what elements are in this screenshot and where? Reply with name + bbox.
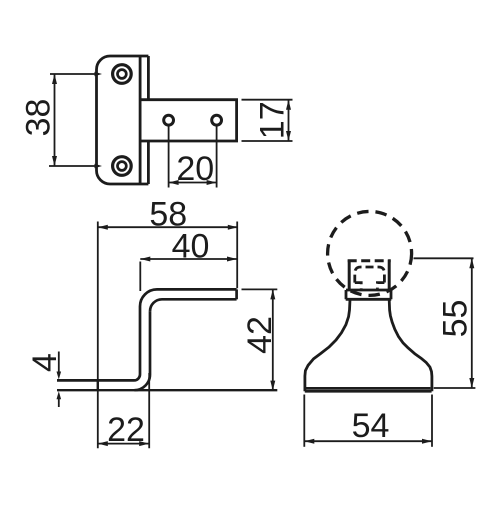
dim 55 dimension line bbox=[471, 258, 473, 388]
front view: collar bbox=[346, 290, 392, 299]
dim 55 bottom extension line bbox=[434, 387, 476, 389]
arrowhead 22 right bbox=[139, 441, 149, 446]
dim 54 right extension line bbox=[431, 395, 433, 447]
front view: clamp top dashed edge bbox=[348, 259, 391, 262]
svg-text:40: 40 bbox=[172, 228, 210, 266]
front view: bell left side bbox=[305, 300, 350, 392]
side view: outer surface bottom long line (also ext for 42/4) bbox=[57, 389, 277, 391]
dim 38 dimension line bbox=[54, 74, 56, 166]
dim 55 top extension / pipe leader bbox=[414, 257, 474, 259]
arrowhead 38 top leader tip bbox=[95, 72, 103, 76]
arrowhead 4 bottom bbox=[57, 391, 62, 399]
dim 42 dimension line bbox=[272, 289, 274, 390]
svg-text:4: 4 bbox=[26, 353, 64, 372]
dim 54 left extension line bbox=[303, 395, 305, 447]
front view: clamp right wall bbox=[388, 260, 391, 291]
front view: hidden channel right foot bbox=[377, 283, 384, 289]
top view: upper screw hole outer bbox=[113, 65, 132, 84]
svg-text:20: 20 bbox=[176, 150, 214, 188]
arrowhead 20 right bbox=[207, 180, 217, 185]
side view: inner surface (bottom bar top + web left + top bar top) bbox=[57, 289, 237, 380]
top view: fold line bbox=[139, 56, 142, 184]
arrowhead 58 right bbox=[228, 225, 238, 230]
dim 38 upper extension line bbox=[50, 73, 99, 75]
arrowhead 42 top bbox=[270, 289, 275, 299]
top view: arm hole left bbox=[164, 115, 174, 125]
top view: plate right edge lower segment bbox=[147, 141, 150, 184]
top view: upper screw hole inner bbox=[118, 70, 127, 79]
svg-text:42: 42 bbox=[241, 316, 279, 354]
svg-text:54: 54 bbox=[352, 407, 390, 445]
dim 4 lower arrow stem bbox=[58, 398, 60, 407]
dim 17 upper extension line bbox=[242, 99, 293, 101]
arrowhead 54 right bbox=[422, 439, 432, 444]
dim 54 dimension line bbox=[304, 440, 432, 442]
dim 58/22 shared left extension line bbox=[97, 222, 99, 449]
front view: flange bottom edge bbox=[305, 390, 432, 393]
front view: hidden channel left foot bbox=[355, 283, 361, 289]
arrowhead 40 right bbox=[227, 257, 237, 262]
dim 22 right extension line bbox=[148, 373, 150, 448]
side view: left end cap bbox=[97, 380, 99, 390]
front view: dashed pipe circle bbox=[328, 211, 412, 295]
arrowhead 54 left bbox=[304, 439, 314, 444]
arrowhead 17 top bbox=[286, 100, 291, 110]
dim 42 top extension line bbox=[242, 288, 278, 290]
side view: top bar bottom surface bbox=[162, 298, 237, 301]
svg-text:55: 55 bbox=[436, 300, 474, 338]
side view: web right surface bbox=[149, 311, 152, 374]
front view: hidden channel profile cap bbox=[355, 267, 385, 283]
top view: arm hole right bbox=[212, 115, 222, 125]
arrowhead 38 top bbox=[52, 74, 57, 84]
dim 20 right leader bbox=[216, 127, 218, 188]
side view: top bend inner bbox=[150, 299, 162, 311]
front view: bell right side bbox=[389, 300, 432, 392]
arrowhead 55 bottom bbox=[469, 378, 474, 388]
dim 22 dimension line bbox=[98, 443, 149, 445]
side view: outer bend bottom bbox=[134, 375, 150, 391]
dim 17 dimension line bbox=[288, 100, 290, 141]
dim 17 lower extension line bbox=[242, 140, 293, 142]
top view: plate right edge upper segment bbox=[147, 56, 150, 100]
arrowhead 4 top bbox=[57, 372, 62, 380]
dim 58/40 shared right extension line bbox=[236, 222, 238, 289]
dim 40 dimension line bbox=[140, 258, 237, 260]
dim 38 lower extension line bbox=[49, 165, 99, 167]
svg-text:22: 22 bbox=[107, 411, 145, 449]
dim 58 dimension line bbox=[98, 226, 238, 228]
arrowhead 17 bottom bbox=[286, 131, 291, 141]
arrowhead 20 left bbox=[169, 180, 179, 185]
top view: lower screw hole outer bbox=[113, 157, 132, 176]
arrowhead 38 bottom leader tip bbox=[95, 164, 103, 168]
arrowhead 38 bottom bbox=[52, 156, 57, 166]
dim 20 left leader bbox=[168, 127, 170, 188]
arrowhead 40 left bbox=[140, 257, 150, 262]
front view: clamp left wall bbox=[348, 260, 351, 291]
dim 4 upper arrow stem bbox=[58, 352, 60, 373]
arrowhead 42 bottom bbox=[270, 381, 275, 391]
top view: arm outline bbox=[140, 100, 237, 141]
top view: base plate outline bbox=[97, 56, 149, 184]
top view: lower screw hole inner bbox=[118, 162, 127, 171]
svg-text:38: 38 bbox=[20, 99, 58, 137]
arrowhead 58 left bbox=[98, 225, 108, 230]
front view: flange crease bbox=[306, 387, 430, 390]
arrowhead 55 top bbox=[469, 258, 474, 268]
svg-text:17: 17 bbox=[254, 101, 292, 139]
arrowhead 22 left bbox=[98, 441, 108, 446]
dim 20 dimension line bbox=[169, 182, 217, 184]
side view: right end cap bbox=[235, 289, 238, 299]
dim 40 left extension line bbox=[139, 262, 141, 292]
